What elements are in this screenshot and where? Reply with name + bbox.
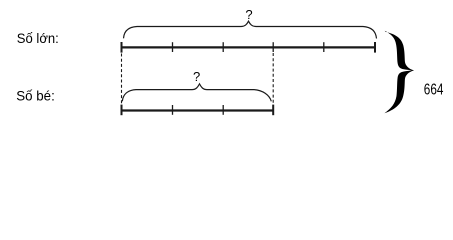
svg-text:?: ? [245, 7, 252, 22]
svg-text:?: ? [193, 69, 200, 84]
svg-text:Số lớn:: Số lớn: [17, 30, 59, 46]
tick 3 So lon [272, 42, 274, 52]
overbrace bottom (So be) [122, 84, 271, 101]
svg-text:Số bé:: Số bé: [16, 88, 55, 104]
big right brace [384, 31, 414, 114]
svg-text:664: 664 [424, 82, 444, 99]
dashed guide left [121, 54, 123, 105]
cap left So be [121, 105, 123, 116]
tick 1 So lon [172, 42, 174, 52]
cap right So be [272, 105, 274, 116]
cap left So lon [121, 42, 123, 53]
bar So be [121, 109, 274, 111]
tick 1 So be [172, 105, 174, 115]
cap right So lon [374, 42, 376, 53]
bar So lon [121, 46, 376, 48]
tick 2 So lon [222, 42, 224, 52]
tick 4 So lon [323, 42, 325, 52]
tick 2 So be [222, 105, 224, 115]
overbrace top (So lon) [124, 21, 377, 38]
dashed guide right [272, 53, 274, 104]
